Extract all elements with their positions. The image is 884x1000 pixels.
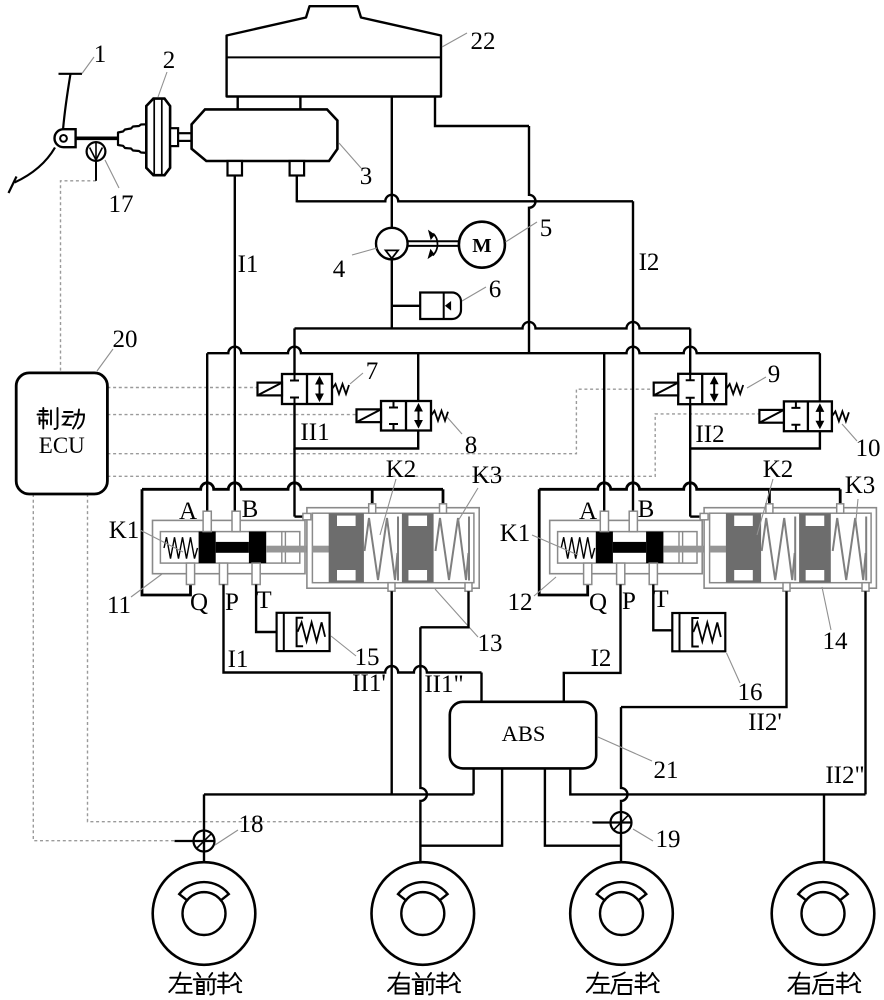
- svg-text:13: 13: [478, 630, 503, 657]
- svg-text:K1: K1: [109, 517, 140, 544]
- svg-text:T: T: [653, 586, 668, 613]
- svg-text:II2: II2: [695, 421, 724, 448]
- svg-text:10: 10: [856, 435, 881, 462]
- svg-text:5: 5: [540, 215, 553, 242]
- svg-text:B: B: [638, 496, 655, 523]
- svg-text:21: 21: [654, 757, 679, 784]
- svg-text:16: 16: [738, 679, 763, 706]
- svg-text:A: A: [179, 498, 197, 525]
- svg-text:Q: Q: [589, 589, 607, 616]
- svg-text:7: 7: [366, 358, 379, 385]
- svg-text:A: A: [579, 498, 597, 525]
- svg-text:I2: I2: [639, 249, 660, 276]
- svg-text:ABS: ABS: [502, 721, 546, 746]
- svg-text:II1": II1": [424, 671, 463, 698]
- svg-text:I1: I1: [228, 646, 249, 673]
- svg-text:II2': II2': [748, 709, 782, 736]
- svg-text:I1: I1: [238, 251, 259, 278]
- svg-text:P: P: [622, 588, 636, 615]
- svg-text:19: 19: [656, 826, 681, 853]
- svg-text:18: 18: [239, 811, 264, 838]
- svg-text:P: P: [225, 589, 239, 616]
- svg-text:T: T: [256, 587, 271, 614]
- svg-text:K3: K3: [845, 472, 876, 499]
- svg-text:I2: I2: [591, 645, 612, 672]
- svg-text:11: 11: [107, 592, 131, 619]
- svg-text:4: 4: [333, 256, 346, 283]
- svg-text:9: 9: [768, 361, 781, 388]
- svg-text:15: 15: [355, 644, 380, 671]
- svg-text:K1: K1: [500, 520, 531, 547]
- svg-text:6: 6: [489, 276, 502, 303]
- svg-text:Q: Q: [190, 589, 208, 616]
- svg-text:3: 3: [360, 163, 373, 190]
- svg-text:K2: K2: [386, 456, 417, 483]
- svg-text:K3: K3: [472, 462, 503, 489]
- svg-text:II1': II1': [352, 670, 386, 697]
- svg-text:14: 14: [823, 628, 849, 655]
- svg-text:K2: K2: [763, 456, 794, 483]
- svg-text:1: 1: [94, 41, 107, 68]
- svg-text:II1: II1: [300, 419, 329, 446]
- svg-text:B: B: [242, 496, 259, 523]
- svg-text:8: 8: [465, 432, 478, 459]
- svg-text:17: 17: [109, 191, 134, 218]
- svg-text:M: M: [472, 235, 491, 257]
- svg-text:2: 2: [163, 47, 176, 74]
- svg-text:II2": II2": [825, 762, 864, 789]
- svg-text:22: 22: [471, 28, 496, 55]
- svg-text:12: 12: [508, 589, 533, 616]
- svg-text:20: 20: [113, 326, 138, 353]
- svg-text:ECU: ECU: [39, 433, 85, 458]
